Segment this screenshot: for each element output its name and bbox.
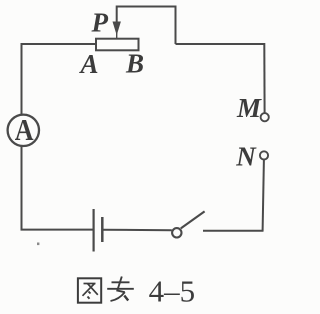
- svg-text:P: P: [91, 7, 109, 37]
- wire: switch to battery: [103, 229, 172, 232]
- ammeter A1 circle: [8, 115, 39, 146]
- rheostat slider arrowhead: [113, 22, 121, 35]
- svg-text:M: M: [236, 93, 262, 123]
- terminal N circle: [260, 151, 268, 159]
- svg-text:A: A: [15, 113, 34, 148]
- caption character 专: [107, 277, 134, 302]
- svg-text:B: B: [125, 48, 144, 78]
- wire: top horizontal (slider to step): [117, 6, 176, 8]
- svg-text:A: A: [79, 49, 99, 79]
- wire: right vertical lower (terminal N to bottom-right corner): [263, 160, 264, 231]
- battery B1 short plate: [101, 217, 104, 242]
- svg-text:4–5: 4–5: [149, 274, 196, 309]
- svg-text:N: N: [235, 141, 257, 171]
- wire: step horizontal to top-right corner: [176, 43, 265, 45]
- battery B1 long plate: [92, 209, 94, 252]
- wire: left vertical lower (ammeter to bottom-left corner): [21, 147, 23, 231]
- switch S1 pivot circle: [172, 228, 181, 237]
- wire: top-left horizontal (corner to rheostat left terminal): [21, 43, 97, 45]
- terminal M circle: [261, 113, 269, 121]
- wire: right vertical upper (corner to terminal M): [263, 43, 265, 113]
- scan speck: [37, 243, 39, 246]
- rheostat slider wire: [116, 6, 118, 24]
- wire: battery to bottom-left corner: [21, 229, 94, 231]
- wire: left vertical upper (top-left corner to ammeter): [21, 43, 23, 115]
- wire: step vertical: [175, 6, 177, 45]
- switch S1 lever: [181, 211, 205, 228]
- caption character 图: [78, 278, 101, 302]
- wire: bottom-right horizontal (corner to switch): [203, 230, 264, 232]
- rheostat R1 body: [96, 39, 139, 51]
